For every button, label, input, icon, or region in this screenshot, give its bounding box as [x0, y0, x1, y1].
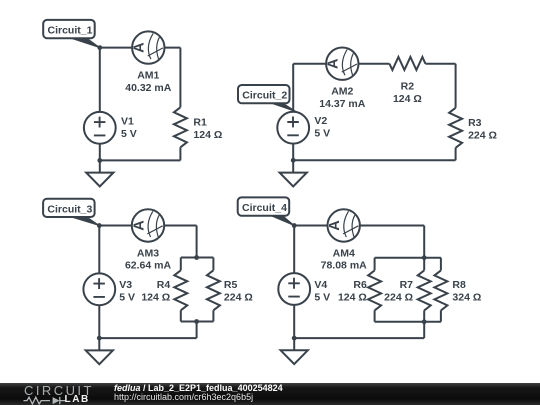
wire parallel bottom rail circuit 4: [375, 321, 441, 323]
wire right branch circuit 2: [455, 64, 457, 161]
wire right feed circuit 3: [196, 226, 198, 258]
wire R5 leads: [212, 258, 214, 322]
resistor R1: [174, 107, 187, 147]
resistor R8: [434, 270, 447, 310]
wire right feed circuit 4: [423, 226, 425, 258]
resistor R3: [449, 108, 462, 148]
ammeter AM3: [131, 209, 164, 241]
node N1 top-left junction circuit 1: [100, 47, 181, 49]
resistor R4: [174, 270, 187, 310]
label flag Circuit_3: [43, 199, 99, 226]
wire right branch circuit 1: [179, 48, 181, 161]
label flag Circuit_1: [43, 20, 100, 48]
junction dot node J: [422, 319, 427, 324]
ground circuit 1: [99, 160, 101, 172]
wire bottom circuit 3: [99, 337, 196, 339]
wire bottom circuit 1: [100, 159, 181, 161]
voltage source V4: [278, 273, 310, 305]
footer logo resistor-diode symbol: [24, 397, 66, 404]
ground circuit 2: [292, 160, 294, 172]
wire bottom circuit 2: [293, 159, 455, 161]
wire R7 leads: [423, 258, 425, 322]
wire R8 leads: [440, 258, 442, 322]
resistor R7: [418, 270, 431, 310]
wire R6 leads: [374, 258, 376, 322]
ground circuit 3: [98, 338, 100, 350]
wire parallel top rail circuit 4: [375, 257, 441, 259]
voltage source V3: [83, 273, 115, 305]
wire R4 leads: [180, 258, 182, 322]
wire left branch circuit 1: [99, 48, 101, 161]
junction dot node C: [291, 158, 296, 163]
resistor R2: [389, 57, 425, 70]
wire parallel bottom rail circuit 3: [181, 321, 214, 323]
wire left branch circuit 4: [293, 226, 295, 339]
ammeter AM4: [327, 209, 360, 241]
junction dot node B: [97, 158, 102, 163]
wire parallel top rail circuit 3: [181, 257, 214, 259]
junction dot node K: [292, 336, 297, 341]
junction dot node G: [97, 336, 102, 341]
voltage source V1: [84, 112, 116, 144]
junction dot node I: [422, 255, 427, 260]
wire down feed circuit 4: [423, 322, 425, 338]
ammeter AM1: [132, 31, 165, 63]
junction dot node H: [292, 223, 297, 228]
label flag Circuit_2: [238, 85, 296, 112]
ammeter AM2: [326, 48, 359, 80]
junction dot node A: [97, 45, 102, 50]
junction dot node E: [194, 255, 199, 260]
wire top circuit 2: [293, 63, 455, 65]
footer bar: [0, 383, 540, 405]
label flag Circuit_4: [238, 197, 295, 225]
wire bottom circuit 4: [294, 337, 424, 339]
resistor R6: [368, 270, 381, 310]
wire left branch circuit 2: [292, 64, 294, 161]
wire top circuit 4: [294, 225, 424, 227]
junction dot node D: [97, 223, 102, 228]
wire down feed circuit 3: [196, 322, 198, 339]
resistor R5: [207, 270, 220, 310]
voltage source V2: [277, 112, 309, 144]
wire top circuit 3: [99, 225, 196, 227]
junction dot node F: [194, 319, 199, 324]
ground circuit 4: [293, 338, 295, 350]
wire left branch circuit 3: [98, 226, 100, 339]
